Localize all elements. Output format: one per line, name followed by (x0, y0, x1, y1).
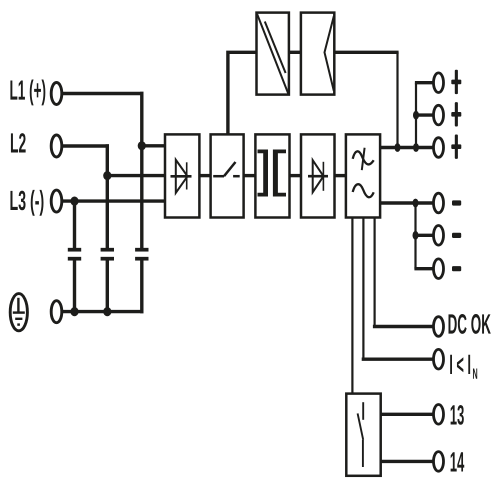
label 13 (451, 405, 464, 425)
filter upper sine symbol (353, 148, 374, 170)
minus sign 1 (452, 200, 461, 205)
transformer winding symbol (258, 150, 287, 197)
wire minus terminal 3 stub (414, 267, 433, 270)
wire minus output bus from filter (380, 201, 434, 204)
node junction minus dropper / terminal 2 (413, 231, 419, 240)
wire filter left vertical to relay (351, 217, 353, 394)
minus sign 2 (452, 233, 461, 238)
inrush switch box (211, 134, 244, 217)
wire capacitor C2 lower lead (106, 261, 109, 312)
transformer box (255, 134, 289, 217)
rectifier box (165, 134, 199, 217)
wire relay contact 13 (381, 413, 434, 416)
wire L2 horizontal from terminal (63, 144, 109, 147)
node junction plus riser / terminal 2 (413, 111, 419, 120)
node junction boost drop / plus bus (395, 143, 401, 152)
capacitor C2 (101, 250, 114, 259)
label I < I (450, 355, 470, 374)
PE protective earth symbol (10, 294, 27, 331)
wire relay contact 14 (381, 460, 434, 463)
output filter box (346, 134, 380, 217)
node junction ground bus / C1 (70, 307, 78, 316)
node junction L3 / capacitor C1 (70, 197, 78, 206)
wire secondary diode to output filter (335, 174, 346, 177)
boost stage box (301, 13, 334, 95)
wire filter right vertical to DC OK (374, 217, 376, 327)
DC/DC converter diagonal symbol (257, 14, 288, 93)
wire L3 horizontal into rectifier bottom input (63, 199, 165, 202)
wire boost stage output horizontal (334, 51, 398, 54)
wire plus output bus from filter (380, 146, 434, 149)
DC/DC converter box (257, 13, 289, 95)
wire rectifier to inrush switch (199, 174, 210, 177)
terminal plus 2 (434, 105, 444, 125)
node junction ground bus / C2 (103, 307, 111, 316)
wire L1 branch into rectifier top input (142, 144, 165, 147)
wire inrush switch to transformer (244, 174, 256, 177)
wire plus riser vertical (415, 83, 417, 148)
relay contact symbol (358, 402, 364, 467)
plus sign 3 (451, 135, 461, 159)
node junction L2 branch (103, 171, 111, 180)
label L2 (11, 133, 26, 152)
node junction minus bus / dropper (413, 199, 419, 208)
terminal ground (51, 301, 62, 323)
wire top loop into DC/DC converter (226, 51, 256, 54)
wire capacitor C1 lower lead (73, 261, 76, 312)
secondary diode symbol (308, 160, 328, 192)
secondary diode box (301, 134, 335, 217)
plus sign 2 (451, 102, 461, 126)
node junction plus bus / riser (413, 143, 419, 152)
label N (473, 368, 477, 378)
terminal L2 (51, 135, 62, 157)
rectifier diode symbol (171, 160, 192, 193)
terminal I less than In (434, 349, 444, 369)
plus sign 1 (451, 70, 461, 94)
wire capacitor C1 upper lead (73, 201, 76, 248)
terminal minus 3 (434, 259, 444, 279)
boost stage chevron symbol (325, 16, 334, 91)
wire top loop left leg from inrush switch box (226, 54, 229, 135)
wire L1 horizontal from terminal (63, 92, 144, 95)
wire I<In horizontal (362, 358, 434, 361)
wire plus terminal 2 stub (416, 113, 434, 116)
wire DC/DC converter to boost stage (289, 51, 301, 54)
wire L1 vertical drop to capacitor C3 (140, 92, 143, 248)
capacitor C3 (135, 250, 148, 259)
terminal L3 (51, 190, 62, 212)
terminal DC OK (434, 317, 444, 337)
label L1 (+) (10, 79, 45, 105)
wire L2 branch into rectifier middle input (107, 174, 165, 177)
wire filter middle vertical to I<In (362, 217, 364, 359)
capacitor C1 (68, 250, 81, 259)
wire transformer to secondary diode (290, 174, 302, 177)
minus sign 3 (452, 266, 461, 271)
wire minus dropper vertical (414, 203, 416, 269)
wire ground bus (63, 310, 144, 313)
node junction L1 branch (138, 141, 146, 150)
label DC OK (449, 314, 491, 334)
wire DC OK horizontal (373, 325, 434, 328)
terminal plus 1 (434, 73, 444, 93)
label L3 (-) (10, 190, 43, 216)
terminal 13 (434, 405, 444, 425)
wire L2 vertical drop to capacitor C2 (106, 144, 109, 248)
wire capacitor C3 lower lead (140, 261, 143, 314)
wire plus terminal 1 stub (415, 81, 434, 84)
relay box (346, 394, 380, 476)
label 14 (451, 452, 465, 471)
terminal minus 1 (434, 193, 444, 213)
terminal minus 2 (434, 226, 444, 246)
terminal 14 (434, 452, 444, 472)
wire boost output vertical drop (396, 52, 398, 147)
wire minus terminal 2 stub (416, 234, 434, 237)
terminal L1 (51, 83, 62, 105)
terminal plus 3 (434, 138, 444, 158)
filter lower sine symbol (353, 184, 374, 197)
inrush switch symbol (213, 162, 240, 176)
